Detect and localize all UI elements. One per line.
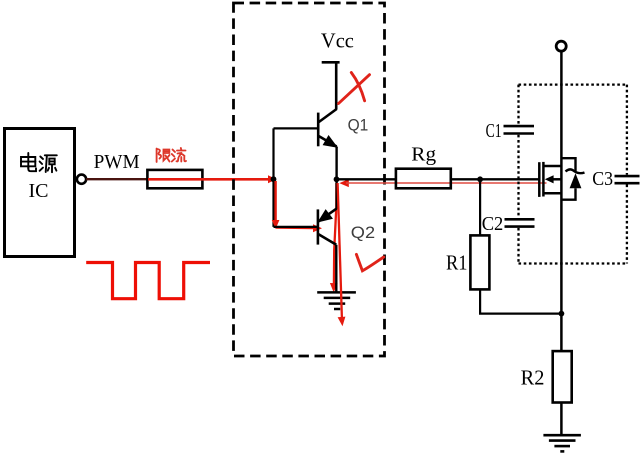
- ground (bottom): [543, 435, 581, 451]
- wire Q2 collector to ground: [335, 245, 337, 293]
- 电: [27, 153, 29, 169]
- node output junction: [334, 176, 340, 182]
- svg-text:R2: R2: [521, 366, 545, 390]
- node gate junction: [477, 176, 483, 182]
- svg-text:Q2: Q2: [351, 223, 375, 242]
- wire Rg to gate: [451, 178, 540, 180]
- capacitor C3: [615, 176, 640, 183]
- resistor 限流 (current-limit): [147, 170, 202, 188]
- svg-text:Q1: Q1: [348, 115, 369, 134]
- red arrowhead into node: [268, 175, 277, 183]
- svg-text:C1: C1: [486, 120, 502, 142]
- wire node to Q2 emitter: [335, 179, 337, 209]
- dashed box (driver stage): [234, 3, 385, 356]
- red path down base bus: [274, 181, 276, 222]
- resistor R2: [553, 351, 572, 402]
- wire Q2 base lead: [274, 226, 318, 228]
- wire red from limit resistor to base node: [148, 178, 271, 181]
- red checkmark near Q2: [356, 254, 383, 270]
- svg-text:Rg: Rg: [411, 143, 436, 165]
- terminal circle on IC box: [77, 175, 86, 184]
- 限: [156, 149, 158, 162]
- 源: [40, 157, 43, 160]
- red X mark over Q1 collector: [339, 73, 370, 104]
- red thin gate line (from MOSFET back to node): [346, 182, 547, 184]
- svg-text:C3: C3: [592, 168, 613, 190]
- wire Vcc stem: [335, 62, 338, 109]
- svg-text:C2: C2: [482, 213, 504, 235]
- Q2 emitter arrowhead (points into bar): [319, 210, 332, 221]
- wire drain vertical: [560, 51, 563, 351]
- wire R1 bottom to source junction: [480, 289, 561, 313]
- wire node to Rg: [337, 178, 396, 180]
- svg-text:R1: R1: [446, 251, 468, 275]
- ground (Q2 collector): [317, 292, 356, 309]
- svg-text:IC: IC: [29, 180, 49, 202]
- wire left vertical (base bus): [272, 128, 274, 227]
- capacitor C1: [504, 126, 535, 133]
- capacitor C2: [505, 219, 535, 226]
- svg-text:Vcc: Vcc: [321, 29, 354, 53]
- red arrowhead pointing left into output node: [339, 179, 349, 187]
- wire Q1 emitter to node: [335, 147, 337, 180]
- transistor Q1 (NPN): [318, 109, 336, 147]
- red arrow through Q2 to ground (under black): [334, 183, 337, 286]
- red path to Q2 base: [276, 226, 314, 229]
- MOSFET body arrow: [545, 175, 554, 183]
- red arrow long (through ground): [338, 183, 342, 318]
- resistor Rg: [396, 169, 451, 189]
- resistor R1: [470, 235, 489, 289]
- body diode: [561, 158, 584, 200]
- svg-text:PWM: PWM: [94, 151, 140, 173]
- dotted box (MOSFET model): [519, 85, 628, 264]
- terminal circle top (drain): [556, 41, 566, 51]
- hanzi 电源 (text of power IC box, drawn as strokes): [21, 153, 57, 172]
- MOSFET Q3 (N-channel with body diode): [539, 162, 561, 197]
- wire R2 to ground: [560, 403, 563, 436]
- PWM square wave (red): [86, 263, 210, 299]
- wire Q1 base lead: [274, 127, 319, 129]
- power IC box 电源IC: [5, 129, 75, 257]
- wire gate node down to R1: [479, 179, 481, 235]
- body diode triangle: [570, 173, 582, 188]
- Q1 emitter arrowhead: [324, 136, 337, 146]
- Vcc supply bar: [322, 61, 340, 64]
- hanzi 限流 label (red): [157, 148, 186, 162]
- transistor Q2 (PNP): [318, 209, 337, 245]
- node base junction: [271, 176, 277, 182]
- node source junction: [559, 311, 565, 317]
- 流: [173, 150, 176, 153]
- wire PWM (black under red, looks dark red): [86, 178, 148, 180]
